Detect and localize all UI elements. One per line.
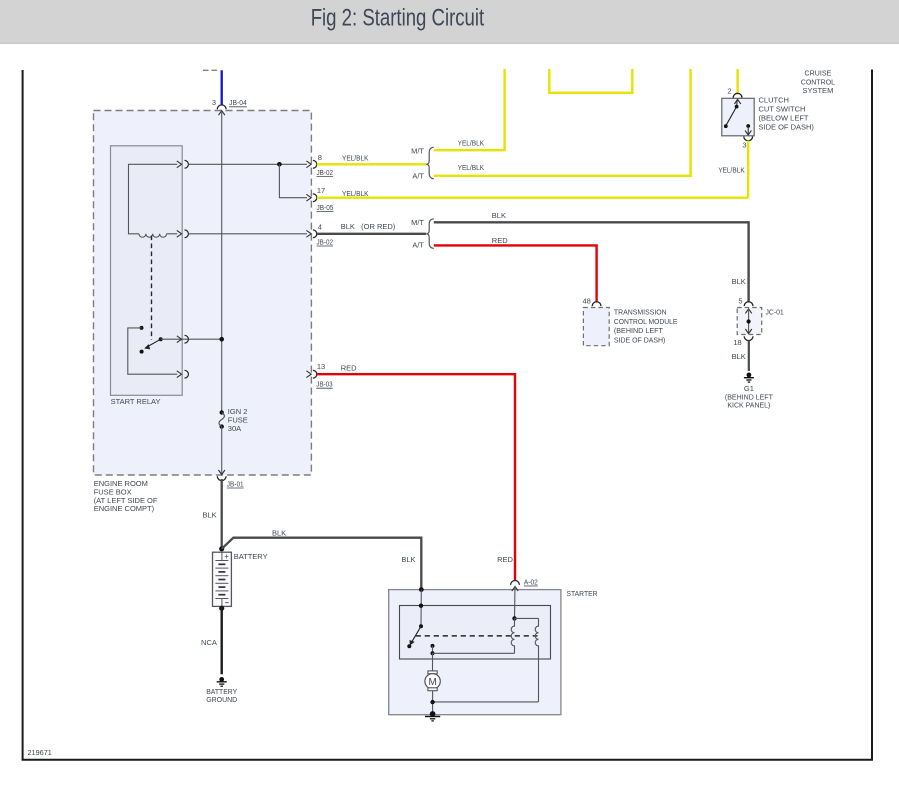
relay pin chevron upper coil xyxy=(177,161,182,168)
relay contact output wire xyxy=(128,328,177,374)
relay common feed wire xyxy=(161,338,222,340)
svg-text:JB-03: JB-03 xyxy=(316,380,333,389)
relay pin chevron common xyxy=(177,336,182,343)
transmission control module U2 xyxy=(583,307,677,345)
svg-text:18: 18 xyxy=(733,338,741,347)
clutch switch blade contact node xyxy=(724,124,728,128)
start relay coil L1 xyxy=(139,234,177,237)
svg-text:JB-02: JB-02 xyxy=(317,168,334,177)
svg-text:ENGINE COMPT): ENGINE COMPT) xyxy=(94,504,155,513)
svg-text:SIDE OF DASH): SIDE OF DASH) xyxy=(614,336,666,345)
svg-text:CUT SWITCH: CUT SWITCH xyxy=(759,105,806,114)
svg-text:48: 48 xyxy=(582,297,590,306)
clutch switch internal top wire xyxy=(736,99,739,106)
svg-text:M/T: M/T xyxy=(411,146,424,155)
connector JB-02 pin 8 arc xyxy=(313,160,317,168)
frame border bottom xyxy=(22,759,873,761)
connector A-02 label xyxy=(524,577,538,586)
JC-01 internal chevron up xyxy=(745,309,751,314)
wire BLK battery to starter xyxy=(222,538,422,590)
clutch switch pin 2 arc xyxy=(733,93,742,97)
svg-text:BLK: BLK xyxy=(272,529,286,538)
node junction relay feed xyxy=(219,337,224,342)
fuse IGN 2 30A xyxy=(219,407,248,433)
svg-text:JB-04: JB-04 xyxy=(229,98,247,107)
svg-text:(BEHIND LEFT: (BEHIND LEFT xyxy=(614,326,663,335)
frame border right xyxy=(871,70,873,761)
svg-text:(BELOW LEFT: (BELOW LEFT xyxy=(759,114,809,123)
wire yellow loop through cruise control xyxy=(549,69,632,93)
wire YEL/BLK A/T up to cruise xyxy=(434,69,691,176)
JC-01 internal node xyxy=(747,319,751,323)
connector JC-01 pin 5 arc xyxy=(744,302,753,306)
svg-text:CRUISE: CRUISE xyxy=(805,68,832,77)
wire motor to ground node xyxy=(432,691,434,714)
relay common contact node xyxy=(159,337,163,341)
clutch cut switch S1 xyxy=(722,96,815,136)
connector JC-01 pin 18 arc xyxy=(744,336,753,340)
svg-text:TRANSMISSION: TRANSMISSION xyxy=(614,307,667,316)
svg-text:BLK: BLK xyxy=(732,277,746,286)
svg-text:8: 8 xyxy=(318,153,322,162)
svg-text:YEL/BLK: YEL/BLK xyxy=(458,163,485,172)
svg-text:NCA: NCA xyxy=(201,638,217,647)
clutch switch pin 3 contact node xyxy=(746,124,750,128)
ground G1 xyxy=(725,373,773,410)
relay blade arrowhead xyxy=(144,344,150,349)
wire RED JB-03 to starter A-02 xyxy=(317,374,515,581)
svg-text:M/T: M/T xyxy=(411,218,424,227)
svg-text:BATTERY: BATTERY xyxy=(234,552,268,561)
clutch switch pin 2 chevron up xyxy=(734,99,740,104)
node solenoid top edge xyxy=(419,604,423,608)
starter blade arrowhead xyxy=(410,640,415,646)
svg-text:219671: 219671 xyxy=(28,748,52,757)
svg-text:KICK PANEL): KICK PANEL) xyxy=(727,401,770,410)
starter solenoid dashed link xyxy=(416,635,538,637)
svg-text:YEL/BLK: YEL/BLK xyxy=(342,154,369,163)
svg-text:YEL/BLK: YEL/BLK xyxy=(458,138,485,147)
svg-text:RED: RED xyxy=(341,364,357,373)
svg-text:STARTER: STARTER xyxy=(567,589,599,598)
relay contact pin arc xyxy=(185,370,189,378)
starter switch blade xyxy=(412,626,421,641)
wire yellow clutch pin 3 down xyxy=(747,141,749,198)
relay pin chevron contact output xyxy=(177,371,182,378)
wire hold-in to motor ground xyxy=(433,701,539,703)
wire motor feed down xyxy=(432,653,434,671)
connector JB-01 arc xyxy=(217,476,226,480)
svg-text:RED: RED xyxy=(492,236,508,245)
relay blade rest node xyxy=(140,350,144,354)
wire fuse to JB-01 xyxy=(221,427,223,475)
JB-02 pin 8 chevron xyxy=(306,161,311,168)
JB-03 pin 13 chevron xyxy=(306,371,311,378)
svg-text:CONTROL MODULE: CONTROL MODULE xyxy=(614,317,678,326)
svg-text:START RELAY: START RELAY xyxy=(111,397,161,406)
svg-text:Fig 2: Starting Circuit: Fig 2: Starting Circuit xyxy=(311,5,485,32)
svg-text:A-02: A-02 xyxy=(524,577,538,586)
starter motor M1 xyxy=(425,671,440,691)
wire blue from ignition switch xyxy=(221,70,223,105)
JB-01 chevron down xyxy=(219,470,225,475)
brace M/T-A/T blk-red group xyxy=(426,219,434,249)
connector JB-05 pin 17 arc xyxy=(313,194,317,202)
joint connector JC-01 xyxy=(737,307,784,334)
svg-text:RED: RED xyxy=(497,555,513,564)
connector A-02 arc xyxy=(511,581,520,585)
label cruise control system xyxy=(801,68,835,95)
relay pin chevron lower coil xyxy=(177,230,182,237)
wire into solenoid xyxy=(420,590,422,627)
svg-text:JB-01: JB-01 xyxy=(227,479,244,488)
JB-05 pin 17 chevron xyxy=(306,194,311,201)
wire BLK (OR RED) pin 4 to brace xyxy=(317,233,426,235)
clutch switch pin 3 internal wire xyxy=(747,126,749,135)
connector JB-04 label xyxy=(229,98,247,107)
connector JB-05 label xyxy=(317,203,334,212)
connector JB-02 label (pin 8) xyxy=(317,168,334,177)
relay common pin arc xyxy=(185,335,189,343)
starter assembly box xyxy=(389,589,598,715)
relay coil upper pin arc xyxy=(185,160,189,168)
battery B1 xyxy=(213,552,268,606)
clutch switch blade xyxy=(726,107,737,126)
starter blade rest node xyxy=(407,644,411,648)
off-page dashes at top xyxy=(203,69,218,71)
svg-text:YEL/BLK: YEL/BLK xyxy=(718,165,745,174)
svg-text:13: 13 xyxy=(317,362,325,371)
wire NCA battery to ground xyxy=(220,606,222,674)
battery ground symbol xyxy=(206,677,238,704)
wire A-02 into solenoid xyxy=(514,587,517,619)
wire BLK JC-01 to G1 xyxy=(748,341,750,372)
relay fixed contact node xyxy=(140,326,144,330)
clutch switch pin 3 chevron down xyxy=(745,130,751,135)
svg-text:4: 4 xyxy=(318,222,322,231)
svg-text:A/T: A/T xyxy=(412,241,424,250)
node junction branch to JB-05 xyxy=(277,162,282,167)
connector JB-03 pin 13 arc xyxy=(313,370,317,378)
wire YEL/BLK M/T up to cruise xyxy=(434,69,505,150)
node junction battery positive xyxy=(219,546,224,551)
wire branch down to JB-05 pin 17 xyxy=(279,164,307,197)
frame border left xyxy=(22,70,24,761)
start relay K1 xyxy=(111,146,183,406)
starter contact stub node xyxy=(431,644,435,648)
node junction starter box edge xyxy=(419,587,424,592)
connector JB-01 label xyxy=(227,479,244,488)
node starter switch common xyxy=(419,624,423,628)
svg-text:2: 2 xyxy=(727,87,731,96)
svg-text:JB-05: JB-05 xyxy=(317,203,334,212)
svg-text:BLK (OR RED): BLK (OR RED) xyxy=(341,222,396,231)
svg-text:BLK: BLK xyxy=(492,211,506,220)
wire RED A/T to TCM xyxy=(434,245,597,302)
svg-text:CLUTCH: CLUTCH xyxy=(759,96,789,105)
node starter case ground xyxy=(430,711,436,717)
pull-in winding L2 xyxy=(511,618,514,653)
connector JB-04 arc xyxy=(217,105,226,109)
JB-02 pin 4 chevron xyxy=(306,230,311,237)
hold-in winding L3 xyxy=(535,618,538,702)
wire YEL/BLK pin 17 to clutch switch xyxy=(317,196,748,198)
svg-text:BLK: BLK xyxy=(401,555,415,564)
wire BLK M/T to JC-01 xyxy=(434,222,749,302)
start relay coil circuit wire xyxy=(129,164,178,234)
svg-text:A/T: A/T xyxy=(412,171,424,180)
node motor ground junction xyxy=(430,700,434,704)
svg-text:3: 3 xyxy=(742,140,746,149)
brace M/T-A/T yellow group xyxy=(426,147,434,179)
svg-text:BLK: BLK xyxy=(732,352,746,361)
svg-text:YEL/BLK: YEL/BLK xyxy=(342,189,369,198)
svg-text:BLK: BLK xyxy=(203,510,217,519)
svg-text:JB-02: JB-02 xyxy=(317,237,334,246)
relay switch blade xyxy=(146,339,161,347)
svg-text:SIDE OF DASH): SIDE OF DASH) xyxy=(759,123,815,132)
svg-text:5: 5 xyxy=(738,297,742,306)
engine room fuse box xyxy=(94,111,312,514)
connector JB-02 pin 4 arc xyxy=(313,230,317,238)
wire relay coil to JB-02 pin 4 xyxy=(189,233,308,235)
starter contact stub wire xyxy=(432,646,434,653)
A-02 chevron up xyxy=(512,587,518,592)
svg-text:JC-01: JC-01 xyxy=(766,307,784,316)
starter solenoid inner box xyxy=(400,606,551,660)
relay coil lower pin arc xyxy=(185,230,189,238)
svg-text:M: M xyxy=(429,677,437,688)
relay coil plunger dashed link xyxy=(151,236,153,341)
svg-text:+: + xyxy=(224,552,229,561)
wire motor feed horizontal xyxy=(433,652,515,654)
svg-text:30A: 30A xyxy=(228,424,241,433)
wire yellow cruise to clutch pin 2 xyxy=(736,69,738,94)
starter ground symbol xyxy=(425,717,440,721)
svg-text:SYSTEM: SYSTEM xyxy=(802,86,833,95)
node motor feed xyxy=(431,651,435,655)
title bar xyxy=(0,0,899,44)
connector JB-03 label xyxy=(316,380,333,389)
clutch switch top contact node xyxy=(735,105,739,109)
svg-text:3: 3 xyxy=(212,98,216,107)
svg-text:GROUND: GROUND xyxy=(206,695,238,704)
wire YEL/BLK pin 8 to brace xyxy=(317,163,426,165)
wire relay to JB-02 pin 8 xyxy=(189,163,308,165)
center vertical wire from JB-04 xyxy=(221,111,223,413)
connector TCM pin 48 arc xyxy=(592,302,601,306)
JC-01 internal wire xyxy=(748,309,750,334)
node solenoid windings junction xyxy=(512,616,516,620)
node battery negative xyxy=(219,606,224,611)
svg-text:17: 17 xyxy=(317,186,325,195)
connector JB-02 label (pin 4) xyxy=(317,237,334,246)
hold-in winding feed wire xyxy=(515,617,539,619)
JC-01 internal chevron down xyxy=(745,329,751,334)
clutch switch pin 3 arc xyxy=(744,136,753,140)
JB-04 chevron up xyxy=(219,111,225,116)
wire BLK JB-01 to battery xyxy=(221,479,223,549)
